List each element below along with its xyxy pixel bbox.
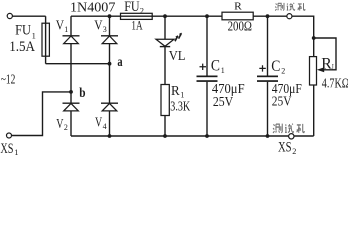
svg-text:XS: XS [278, 139, 292, 155]
svg-text:V: V [56, 17, 65, 32]
svg-text:R: R [321, 56, 332, 73]
svg-text:1: 1 [221, 66, 225, 75]
svg-text:XS: XS [0, 141, 13, 157]
svg-text:3: 3 [103, 25, 107, 34]
svg-text:2: 2 [292, 146, 296, 156]
svg-text:V: V [94, 17, 103, 32]
svg-text:3.3K: 3.3K [170, 99, 190, 114]
svg-text:4: 4 [103, 122, 107, 131]
svg-text:4.7KΩ: 4.7KΩ [322, 77, 348, 92]
svg-text:2: 2 [281, 66, 285, 75]
svg-text:25V: 25V [213, 94, 234, 109]
svg-text:C: C [271, 58, 280, 75]
svg-text:200Ω: 200Ω [228, 20, 252, 35]
svg-text:1: 1 [64, 25, 68, 34]
svg-text:b: b [79, 86, 85, 101]
svg-text:C: C [211, 58, 220, 75]
svg-text:25V: 25V [272, 94, 292, 109]
svg-text:FU: FU [15, 23, 31, 39]
svg-text:R: R [234, 1, 242, 13]
svg-text:1N4007: 1N4007 [70, 1, 115, 16]
svg-text:R: R [171, 83, 180, 98]
svg-text:1: 1 [14, 147, 18, 157]
svg-text:a: a [117, 55, 122, 70]
svg-text:FU: FU [124, 0, 140, 15]
svg-text:1A: 1A [131, 19, 142, 33]
svg-text:L: L [332, 62, 335, 72]
svg-text:2: 2 [64, 123, 68, 132]
svg-text:VL: VL [169, 48, 186, 63]
svg-text:V: V [95, 115, 102, 130]
svg-text:V: V [56, 116, 63, 131]
svg-text:~12: ~12 [1, 72, 16, 87]
svg-text:2: 2 [140, 6, 144, 16]
svg-text:1.5A: 1.5A [9, 39, 35, 55]
